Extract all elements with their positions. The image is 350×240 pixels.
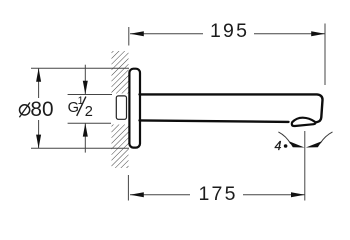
svg-text:1: 1: [78, 95, 84, 107]
175 dimension line left segment: [130, 194, 190, 196]
G 1/2 lower arrowhead pointing up: [83, 123, 88, 136]
dia 80 dimension text: [19, 98, 53, 121]
angle arc right: [320, 132, 332, 143]
175 right arrowhead: [291, 192, 305, 197]
G 1/2 thread label: [68, 95, 93, 120]
G 1/2 upper arrow shaft: [84, 65, 86, 95]
195 dimension line left segment: [130, 33, 203, 35]
aerator outlet at spout tip: [292, 118, 316, 126]
flange (wall escutcheon): [129, 69, 140, 148]
svg-text:80: 80: [30, 98, 53, 121]
G1/2 inlet pipe behind wall: [116, 96, 126, 119]
195 left arrowhead: [130, 31, 144, 36]
svg-text:175: 175: [199, 183, 238, 205]
degree dot: [284, 144, 288, 148]
195 dimension extension line right (spout end): [324, 24, 326, 86]
dia 80 dimension line lower segment: [38, 120, 40, 148]
G 1/2 lower arrow shaft: [84, 123, 86, 152]
spout body top and right outline: [140, 94, 323, 122]
dia 80 extension line top: [31, 67, 129, 69]
195 dimension line right segment: [254, 33, 325, 35]
195 dimension extension line left (wall surface): [128, 27, 130, 46]
G 1/2 extension line top: [68, 94, 112, 96]
195 right arrowhead: [311, 31, 325, 36]
spout body bottom line: [140, 120, 289, 122]
dia 80 dimension line upper segment: [38, 68, 40, 98]
dia 80 extension line bottom: [31, 147, 129, 149]
wall hatching lower section: [112, 125, 129, 169]
dia 80 lower arrowhead: [36, 135, 41, 149]
175 dimension extension line right (outlet axis): [304, 131, 306, 201]
wall hatching upper section: [112, 51, 129, 94]
angle right arrowhead: [306, 141, 322, 147]
G 1/2 extension line bottom: [68, 122, 111, 124]
175 left arrowhead: [130, 192, 144, 197]
175 dimension extension line left: [127, 175, 129, 201]
svg-text:4: 4: [275, 139, 282, 153]
svg-text:195: 195: [210, 20, 249, 42]
angle left arrowhead: [289, 141, 305, 147]
G 1/2 upper arrowhead pointing down: [83, 81, 88, 94]
175 dimension line right segment: [243, 194, 305, 196]
angle arc left: [278, 132, 290, 144]
dia 80 upper arrowhead: [36, 68, 41, 82]
svg-text:2: 2: [85, 104, 93, 120]
